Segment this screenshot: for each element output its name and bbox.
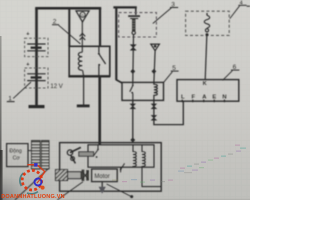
svg-text:F: F	[192, 95, 196, 101]
svg-text:Cơ: Cơ	[13, 156, 21, 162]
svg-text:6: 6	[233, 64, 237, 71]
svg-text:2: 2	[53, 19, 57, 26]
svg-text:+: +	[26, 32, 29, 38]
svg-text:E: E	[212, 95, 216, 101]
svg-text:K: K	[203, 81, 207, 87]
svg-text:DOANNHATLUONG.VN: DOANNHATLUONG.VN	[1, 194, 65, 200]
svg-text:L: L	[181, 95, 185, 101]
svg-text:Động: Động	[9, 148, 22, 154]
svg-text:1: 1	[8, 96, 12, 103]
svg-text:3: 3	[171, 2, 175, 9]
svg-text:4: 4	[240, 1, 243, 7]
svg-text:12 V: 12 V	[50, 84, 62, 90]
svg-text:+: +	[26, 62, 29, 68]
svg-text:N: N	[222, 95, 226, 101]
svg-text:Motor: Motor	[94, 174, 109, 180]
svg-text:G: G	[81, 13, 84, 17]
svg-text:5: 5	[172, 65, 176, 72]
